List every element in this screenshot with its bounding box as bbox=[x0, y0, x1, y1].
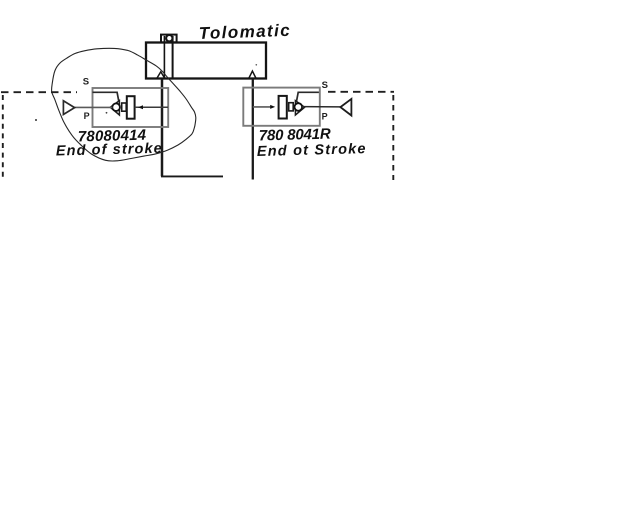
V1 stem bbox=[122, 103, 127, 111]
V1 S passage bbox=[93, 92, 119, 101]
V2 P line to exhaust bbox=[302, 106, 340, 108]
bottom stub wire bbox=[161, 175, 223, 177]
V2 check ball bbox=[295, 103, 303, 111]
svg-text:End ot Stroke: End ot Stroke bbox=[257, 141, 367, 160]
svg-text:S: S bbox=[83, 77, 89, 88]
V2 stem bbox=[289, 103, 294, 111]
cylinder right port arrow bbox=[249, 71, 256, 78]
valve V1 body bbox=[93, 88, 169, 127]
V2 plunger bbox=[279, 96, 287, 119]
enclosure dashed right bbox=[392, 95, 394, 180]
enclosure dashed top-right bbox=[328, 91, 394, 93]
V1 plunger bbox=[127, 96, 135, 119]
V2 flow arrow bbox=[270, 105, 275, 109]
piston line left bbox=[163, 36, 165, 78]
speck near dashed border bbox=[35, 119, 37, 121]
svg-text:P: P bbox=[322, 111, 328, 121]
cylinder body bbox=[146, 43, 266, 79]
V1 check seat bbox=[110, 101, 119, 115]
piston line right bbox=[172, 36, 174, 78]
cap port circle bbox=[166, 35, 172, 41]
enclosure dashed left bbox=[2, 95, 4, 180]
V2 P line from pipe bbox=[253, 106, 271, 108]
V1 exhaust triangle bbox=[63, 101, 74, 115]
right pipe bbox=[252, 79, 254, 180]
V2 exhaust triangle bbox=[340, 99, 351, 116]
svg-text:End of stroke: End of stroke bbox=[56, 141, 163, 160]
V1 P line from exhaust bbox=[75, 106, 113, 108]
V1 check ball bbox=[112, 103, 120, 111]
speck inside cylinder bbox=[255, 64, 257, 66]
left pipe bbox=[161, 79, 164, 176]
V2 S passage bbox=[297, 92, 319, 101]
enclosure dashed top-left bbox=[1, 91, 77, 93]
svg-text:S: S bbox=[322, 80, 328, 91]
V1 P line to pipe bbox=[135, 106, 168, 108]
svg-text:P: P bbox=[84, 111, 90, 121]
speck inside valve V1 bbox=[106, 112, 108, 114]
V1 flow arrow bbox=[138, 105, 143, 109]
cylinder left port arrow bbox=[157, 72, 165, 79]
svg-text:Tolomatic: Tolomatic bbox=[198, 21, 291, 43]
cylinder cap box bbox=[161, 35, 177, 43]
valve V2 body bbox=[243, 88, 319, 126]
annotation loop around V1 bbox=[52, 48, 196, 161]
V2 check seat bbox=[295, 101, 304, 115]
